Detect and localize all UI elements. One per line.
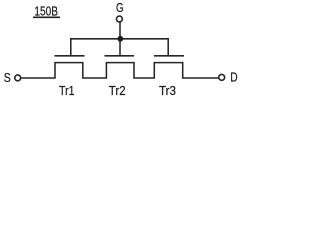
svg-text:150B: 150B xyxy=(34,4,58,19)
svg-text:G: G xyxy=(116,0,124,15)
svg-text:Tr3: Tr3 xyxy=(159,83,176,98)
svg-text:D: D xyxy=(230,69,237,84)
svg-text:Tr1: Tr1 xyxy=(59,83,75,98)
svg-text:Tr2: Tr2 xyxy=(109,83,126,98)
svg-text:S: S xyxy=(4,70,11,85)
